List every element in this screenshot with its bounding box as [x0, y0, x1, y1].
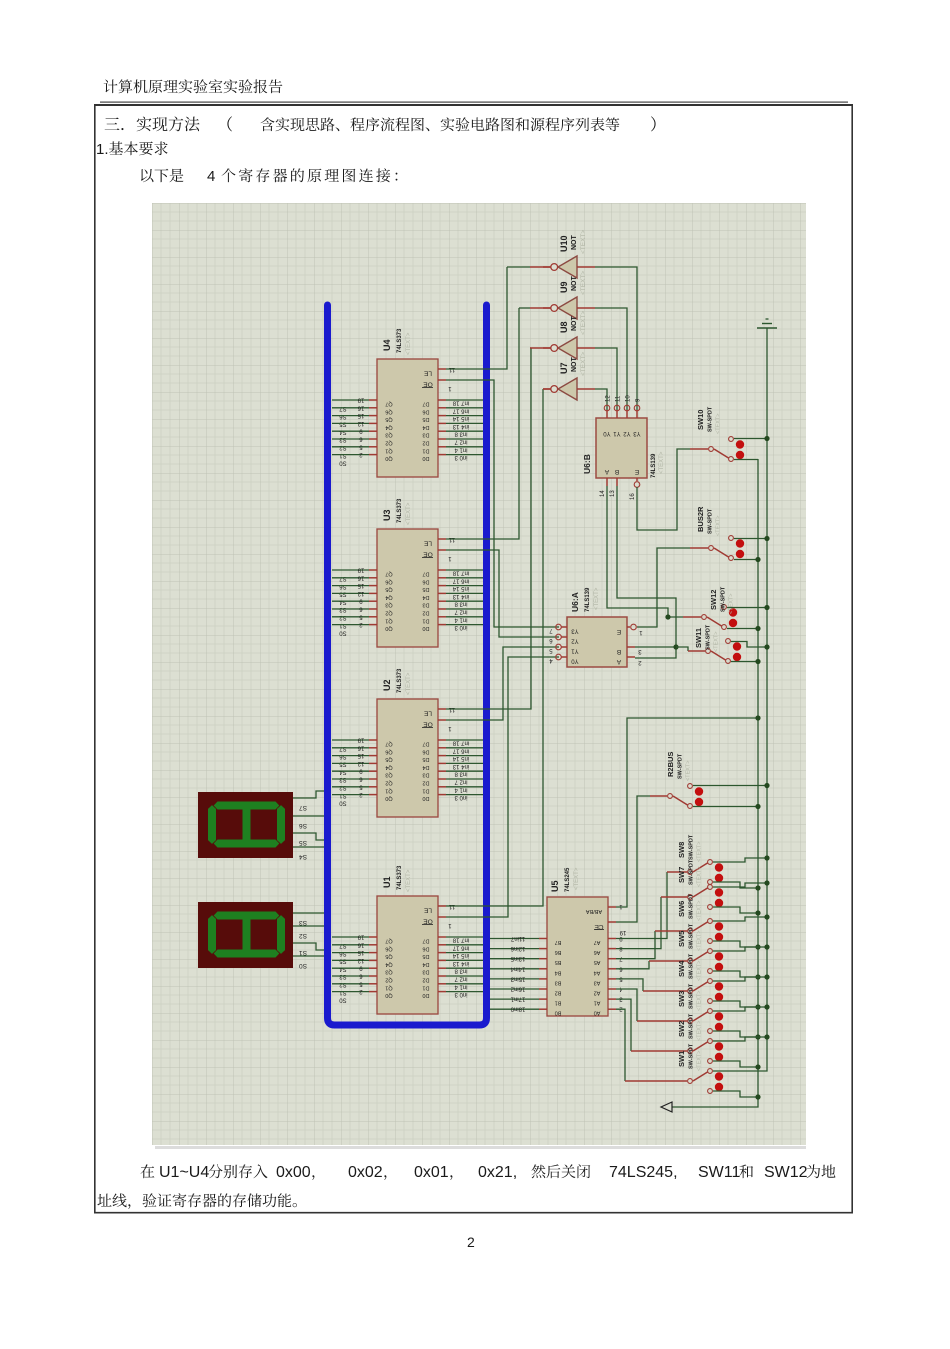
svg-text:0x00: 0x00 [276, 1164, 311, 1181]
wire SW6 top throw to rail A [713, 917, 767, 921]
svg-text:NOT: NOT [571, 316, 578, 332]
svg-text:D4: D4 [422, 961, 429, 967]
svg-text:U3: U3 [382, 509, 392, 521]
svg-text:Q5: Q5 [385, 416, 392, 422]
wire U10 output to U6:B pin 9 [595, 267, 637, 410]
label U8 [559, 311, 587, 335]
wire U6:B pin 14 to SW12 common [607, 486, 683, 617]
svg-text:in0 3: in0 3 [454, 794, 468, 800]
svg-text:12: 12 [357, 420, 364, 426]
svg-text:12: 12 [357, 590, 364, 596]
switch SW8 (SW-SPDT) [677, 834, 723, 884]
svg-text:74LS245: 74LS245 [565, 867, 571, 892]
svg-text:Q2: Q2 [385, 780, 392, 786]
svg-text:Q0: Q0 [385, 795, 392, 801]
svg-text:12: 12 [606, 395, 612, 402]
svg-text:in6 17: in6 17 [452, 577, 469, 583]
svg-text:D0: D0 [422, 625, 429, 631]
wire SW8 top throw to rail A [713, 858, 767, 862]
svg-text:S6: S6 [299, 822, 307, 829]
svg-text:Y1: Y1 [571, 648, 579, 654]
svg-text:Q4: Q4 [385, 424, 392, 430]
svg-text:LE: LE [423, 907, 432, 914]
svg-text:<TEXT>: <TEXT> [697, 901, 703, 921]
figure shadow [155, 1146, 806, 1149]
header title [104, 79, 283, 93]
svg-text:LE: LE [423, 540, 432, 547]
switch SW2 (SW-SPDT) [677, 1013, 723, 1063]
svg-text:D3: D3 [422, 602, 429, 608]
svg-text:SW4: SW4 [677, 960, 686, 977]
svg-text:Q0: Q0 [385, 455, 392, 461]
svg-text:E: E [616, 628, 621, 635]
svg-text:S7: S7 [299, 804, 307, 811]
inverter U9 (NOT gate) [543, 297, 595, 319]
header rule [94, 102, 853, 107]
wire U1 OE to U6:A pin Y0 [446, 657, 559, 917]
bottom paragraph line 2 [97, 1193, 296, 1209]
svg-text:<TEXT>: <TEXT> [574, 867, 580, 890]
wire BUS2R top throw to rail A [734, 538, 767, 540]
svg-text:SW6: SW6 [677, 901, 686, 917]
svg-text:in2 7: in2 7 [454, 779, 468, 785]
svg-text:<TEXT>: <TEXT> [729, 594, 735, 614]
switch SW4 (SW-SPDT) [677, 953, 723, 1003]
svg-text:U2: U2 [382, 679, 392, 691]
svg-text:Q0: Q0 [385, 625, 392, 631]
svg-text:15: 15 [357, 412, 364, 418]
svg-text:D1: D1 [422, 787, 429, 793]
7-segment display 1 [198, 792, 293, 858]
svg-text:<TEXT>: <TEXT> [697, 991, 703, 1011]
svg-text:D2: D2 [422, 440, 429, 446]
svg-text:in6 17: in6 17 [452, 747, 469, 753]
svg-text:D2: D2 [422, 610, 429, 616]
section heading [105, 116, 656, 131]
svg-text:19: 19 [357, 934, 364, 940]
svg-text:in6 17: in6 17 [452, 944, 469, 950]
svg-text:SW-SPDT: SW-SPDT [708, 508, 714, 534]
svg-text:Y0: Y0 [571, 658, 579, 664]
svg-text:S0: S0 [339, 997, 347, 1003]
svg-text:17in1: 17in1 [510, 996, 525, 1002]
svg-text:12: 12 [357, 957, 364, 963]
svg-text:S0: S0 [339, 800, 347, 806]
wire SW11 bottom throw to rail B [731, 661, 758, 663]
svg-text:14: 14 [600, 490, 606, 497]
svg-text:16: 16 [630, 493, 636, 500]
svg-text:SW5: SW5 [677, 931, 686, 947]
svg-text:A3: A3 [594, 979, 601, 985]
wire U5 pin A7 to SW8 common [616, 872, 667, 939]
svg-text:1.: 1. [96, 141, 109, 158]
switch SW1 (SW-SPDT) [677, 1043, 723, 1093]
wire U5 pin A5 to SW6 common [616, 931, 655, 959]
svg-text:Q1: Q1 [385, 984, 392, 990]
svg-text:B7: B7 [555, 939, 562, 945]
svg-text:<TEXT>: <TEXT> [697, 961, 703, 981]
svg-text:SW12: SW12 [764, 1164, 808, 1181]
svg-text:SW-SPDT: SW-SPDT [689, 953, 695, 979]
svg-text:in4 13: in4 13 [452, 763, 469, 769]
switch SW11 (SW-SPDT) [694, 624, 741, 663]
svg-text:A: A [616, 658, 621, 665]
svg-text:A4: A4 [594, 969, 601, 975]
svg-text:Q1: Q1 [385, 447, 392, 453]
intro line [141, 168, 397, 185]
wire U5 pin A2 to SW3 common [616, 989, 637, 1021]
svg-text:19: 19 [357, 567, 364, 573]
svg-text:16in2: 16in2 [510, 986, 525, 992]
svg-text:74LS139: 74LS139 [651, 453, 657, 478]
wire U4 OE to U6:A pin Y3 [446, 380, 559, 627]
svg-text:SW3: SW3 [677, 991, 686, 1007]
svg-text:15in3: 15in3 [510, 975, 525, 981]
svg-text:D0: D0 [422, 795, 429, 801]
svg-text:B2: B2 [555, 990, 562, 996]
svg-text:74LS139: 74LS139 [585, 587, 591, 612]
svg-text:Y2: Y2 [623, 430, 631, 436]
svg-text:<TEXT>: <TEXT> [697, 842, 703, 862]
svg-text:16: 16 [357, 941, 364, 947]
svg-text:in6 17: in6 17 [452, 407, 469, 413]
svg-text:D5: D5 [422, 416, 429, 422]
svg-text:<TEXT>: <TEXT> [406, 332, 412, 355]
svg-text:<TEXT>: <TEXT> [686, 761, 692, 781]
wire U5 pin A3 to SW4 common [616, 979, 643, 991]
wire U5 pin A0 to SW1 common [616, 1009, 625, 1081]
power rail A (x=767) [713, 328, 767, 1071]
svg-text:D1: D1 [422, 984, 429, 990]
switch SW12 (SW-SPDT) [702, 586, 738, 629]
wire U6:A pin B join [635, 646, 676, 648]
svg-text:D5: D5 [422, 756, 429, 762]
svg-text:in2 7: in2 7 [454, 976, 468, 982]
register U3 (74LS373) [332, 498, 483, 647]
svg-text:S2: S2 [299, 932, 307, 939]
svg-text:in1 4: in1 4 [454, 446, 468, 452]
svg-text:SW11: SW11 [694, 628, 703, 648]
svg-text:in1 4: in1 4 [454, 616, 468, 622]
svg-text:<TEXT>: <TEXT> [697, 1021, 703, 1041]
svg-text:Y3: Y3 [633, 430, 641, 436]
svg-text:74LS373: 74LS373 [397, 865, 403, 890]
svg-text:in4 13: in4 13 [452, 960, 469, 966]
svg-text:S5: S5 [299, 839, 307, 846]
svg-text:U10: U10 [559, 235, 569, 252]
svg-text:A: A [604, 468, 609, 475]
svg-text:13: 13 [610, 490, 616, 497]
wire SW4 bottom throw to rail B [713, 1001, 758, 1007]
svg-text:B1: B1 [555, 1000, 562, 1006]
svg-text:Q2: Q2 [385, 610, 392, 616]
svg-text:SW-SPDT: SW-SPDT [689, 1013, 695, 1039]
svg-text:Q3: Q3 [385, 602, 392, 608]
svg-text:in2 7: in2 7 [454, 439, 468, 445]
svg-text:D5: D5 [422, 953, 429, 959]
svg-text:<TEXT>: <TEXT> [406, 869, 412, 892]
svg-text:in7 18: in7 18 [452, 937, 469, 943]
svg-text:16: 16 [357, 744, 364, 750]
svg-text:in2 7: in2 7 [454, 609, 468, 615]
svg-text:B: B [615, 468, 619, 475]
switch BUS2R (SW-SPDT) [696, 506, 744, 560]
svg-text:D7: D7 [422, 938, 429, 944]
svg-text:in1 4: in1 4 [454, 983, 468, 989]
register U1 (74LS373) [332, 865, 483, 1014]
svg-text:19: 19 [357, 737, 364, 743]
svg-text:SW12: SW12 [709, 590, 718, 610]
content box border [95, 106, 852, 1213]
svg-text:NOT: NOT [571, 276, 578, 292]
wire BUS2R common to U6:A pin E [637, 548, 690, 627]
wire SW12 bottom throw to rail B [727, 628, 758, 630]
svg-text:16: 16 [357, 574, 364, 580]
wire SW11 top throw to rail A [731, 642, 767, 648]
svg-text:AB/BA: AB/BA [586, 908, 603, 914]
svg-text:D0: D0 [422, 455, 429, 461]
svg-text:Q2: Q2 [385, 977, 392, 983]
svg-text:SW1: SW1 [677, 1051, 686, 1067]
svg-text:D3: D3 [422, 772, 429, 778]
transceiver U5 (74LS245) [490, 867, 626, 1016]
svg-text:CE: CE [594, 923, 604, 930]
wire U6:B pin E to SW10 common [637, 449, 690, 530]
svg-text:B4: B4 [555, 969, 562, 975]
svg-text:D1: D1 [422, 447, 429, 453]
svg-text:<TEXT>: <TEXT> [406, 502, 412, 525]
svg-text:4: 4 [207, 168, 215, 185]
wire U1 LE to U7 input [446, 389, 543, 906]
svg-text:D1: D1 [422, 617, 429, 623]
svg-text:LE: LE [423, 370, 432, 377]
svg-text:in0 3: in0 3 [454, 454, 468, 460]
svg-text:D6: D6 [422, 408, 429, 414]
wire U3 LE to U9 input [446, 308, 519, 539]
svg-text:12in6: 12in6 [510, 945, 525, 951]
svg-text:SW-SPDT: SW-SPDT [689, 893, 695, 919]
switch SW3 (SW-SPDT) [677, 983, 723, 1033]
svg-text:<TEXT>: <TEXT> [406, 672, 412, 695]
wire SW5 bottom throw to rail B [713, 971, 758, 977]
svg-text:15: 15 [357, 949, 364, 955]
svg-text:in5 14: in5 14 [452, 755, 469, 761]
svg-text:Y1: Y1 [613, 430, 621, 436]
svg-text:Q5: Q5 [385, 953, 392, 959]
svg-text:in3 8: in3 8 [454, 771, 468, 777]
svg-text:D3: D3 [422, 432, 429, 438]
svg-text:SW-SPDT: SW-SPDT [721, 586, 727, 612]
svg-text:19: 19 [619, 929, 626, 935]
svg-text:A1: A1 [594, 1000, 601, 1006]
svg-text:A2: A2 [594, 990, 601, 996]
svg-text:Q7: Q7 [385, 741, 392, 747]
svg-text:S0: S0 [339, 630, 347, 636]
svg-text:12: 12 [357, 760, 364, 766]
svg-text:in7 18: in7 18 [452, 740, 469, 746]
svg-text:D6: D6 [422, 578, 429, 584]
svg-text:15: 15 [357, 582, 364, 588]
wire U2 OE to U6:A pin Y1 [446, 647, 559, 720]
wire SW4 top throw to rail A [713, 977, 767, 981]
wire junction to SW11 common [676, 647, 688, 651]
svg-text:Q4: Q4 [385, 961, 392, 967]
wire U5 pin 1 (AB/BA) to rail B [616, 718, 758, 907]
svg-text:in7 18: in7 18 [452, 400, 469, 406]
svg-text:D6: D6 [422, 945, 429, 951]
svg-text:D3: D3 [422, 969, 429, 975]
svg-text:U9: U9 [559, 281, 569, 293]
wire SW7 top throw to rail A [713, 883, 767, 887]
svg-text:<TEXT>: <TEXT> [580, 352, 587, 376]
svg-text:D5: D5 [422, 586, 429, 592]
svg-text:D0: D0 [422, 992, 429, 998]
svg-text:D4: D4 [422, 764, 429, 770]
svg-text:U1: U1 [382, 876, 392, 888]
svg-text:D7: D7 [422, 741, 429, 747]
svg-text:Q2: Q2 [385, 440, 392, 446]
inverter U10 (NOT gate) [543, 256, 595, 278]
svg-text:SW8: SW8 [677, 842, 686, 858]
label U9 [559, 271, 587, 295]
svg-text:SW-SPDT: SW-SPDT [708, 406, 714, 432]
svg-text:74LS373: 74LS373 [397, 328, 403, 353]
svg-text:B6: B6 [555, 949, 562, 955]
svg-text:<TEXT>: <TEXT> [659, 451, 665, 474]
svg-text:D4: D4 [422, 594, 429, 600]
wire SW1 bottom throw to rail B [713, 1091, 758, 1097]
svg-text:19: 19 [357, 397, 364, 403]
svg-text:SW2: SW2 [677, 1021, 686, 1037]
svg-text:13in5: 13in5 [510, 955, 525, 961]
svg-text:B5: B5 [555, 959, 562, 965]
wire U2 LE to U8 input [446, 348, 531, 709]
svg-text:S0: S0 [339, 460, 347, 466]
svg-text:in5 14: in5 14 [452, 415, 469, 421]
svg-text:<TEXT>: <TEXT> [697, 1051, 703, 1071]
svg-text:U8: U8 [559, 321, 569, 333]
svg-text:OE: OE [423, 918, 433, 925]
svg-text:in4 13: in4 13 [452, 593, 469, 599]
svg-text:Q1: Q1 [385, 617, 392, 623]
svg-text:A7: A7 [594, 939, 601, 945]
wire U7 output to U6:B pin 12 [595, 389, 607, 410]
wire U5 pin 19 (CE) to R2BUS common [616, 796, 650, 922]
wire SW10 top throw to rail A [734, 438, 767, 440]
svg-text:SW-SPDT: SW-SPDT [678, 753, 684, 779]
svg-text:SW-SPDT: SW-SPDT [689, 834, 695, 860]
svg-text:Q0: Q0 [385, 992, 392, 998]
register U4 (74LS373) [332, 328, 483, 477]
svg-text:U6:A: U6:A [570, 592, 580, 612]
svg-text:B: B [617, 648, 621, 655]
svg-text:74LS373: 74LS373 [397, 668, 403, 693]
svg-text:in5 14: in5 14 [452, 952, 469, 958]
svg-text:in0 3: in0 3 [454, 624, 468, 630]
svg-text:<TEXT>: <TEXT> [697, 867, 703, 887]
svg-text:S0: S0 [299, 962, 307, 969]
wire SW10 bottom throw to rail B [734, 459, 758, 461]
decoder U6:A (74LS139) [549, 587, 643, 667]
wire SW3 top throw to rail A [713, 1007, 767, 1011]
svg-text:Q7: Q7 [385, 401, 392, 407]
svg-text:SW-SPDT: SW-SPDT [689, 983, 695, 1009]
switch SW5 (SW-SPDT) [677, 923, 723, 973]
svg-text:<TEXT>: <TEXT> [580, 271, 587, 295]
power rail B (x=758) [672, 459, 758, 1107]
svg-text:Q7: Q7 [385, 571, 392, 577]
svg-text:Q4: Q4 [385, 594, 392, 600]
switch SW7 (SW-SPDT) [677, 859, 723, 909]
svg-text:A0: A0 [594, 1010, 601, 1016]
bottom paragraph line 1 [141, 1164, 836, 1181]
svg-text:0x21,: 0x21, [478, 1164, 517, 1181]
svg-text:Q6: Q6 [385, 748, 392, 754]
svg-text:in3 8: in3 8 [454, 431, 468, 437]
wire SW8 bottom throw to rail B [713, 882, 758, 888]
svg-text:Q3: Q3 [385, 969, 392, 975]
svg-text:2: 2 [467, 1234, 475, 1250]
register U2 (74LS373) [332, 668, 483, 817]
svg-text:in1 4: in1 4 [454, 786, 468, 792]
wire U5 pin A1 to SW2 common [616, 999, 631, 1051]
svg-text:<TEXT>: <TEXT> [697, 931, 703, 951]
svg-text:in3 8: in3 8 [454, 968, 468, 974]
svg-text:SW11: SW11 [698, 1164, 740, 1181]
svg-text:Q6: Q6 [385, 945, 392, 951]
display 2 segment wires [293, 913, 324, 969]
wire SW6 bottom throw to rail B [713, 941, 758, 947]
wire U6:B pin 13 down to U6:A side [617, 486, 676, 658]
svg-text:<TEXT>: <TEXT> [580, 311, 587, 335]
svg-text:D7: D7 [422, 401, 429, 407]
svg-text:U6:B: U6:B [582, 454, 592, 474]
wire R2BUS top throw to rail A [693, 785, 767, 787]
svg-text:U4: U4 [382, 339, 392, 351]
junction on SW12 common wire [665, 614, 670, 619]
svg-text:16: 16 [357, 404, 364, 410]
wire SW12 top throw to rail A [727, 607, 767, 609]
svg-text:D4: D4 [422, 424, 429, 430]
svg-text:Q3: Q3 [385, 432, 392, 438]
svg-text:Q7: Q7 [385, 938, 392, 944]
svg-text:D2: D2 [422, 780, 429, 786]
subsection 1 [96, 141, 168, 158]
svg-text:18in0: 18in0 [510, 1006, 525, 1012]
wire U8 output to U6:B pin 11 [595, 348, 617, 410]
svg-text:D2: D2 [422, 977, 429, 983]
svg-text:R2BUS: R2BUS [666, 752, 675, 777]
svg-text:Y3: Y3 [571, 628, 579, 634]
svg-text:14in4: 14in4 [510, 965, 525, 971]
svg-text:SW10: SW10 [696, 410, 705, 430]
svg-text:74LS373: 74LS373 [397, 498, 403, 523]
inverter U8 (NOT gate) [543, 337, 595, 359]
wire U5 pin A4 to SW5 common [616, 961, 649, 969]
svg-text:74LS245,: 74LS245, [609, 1164, 678, 1181]
inverter U7 (NOT gate) [543, 378, 595, 400]
label U7 [559, 352, 587, 376]
svg-text:U5: U5 [550, 880, 560, 892]
svg-text:LE: LE [423, 710, 432, 717]
svg-text:in5 14: in5 14 [452, 585, 469, 591]
svg-text:SW-SPDT: SW-SPDT [689, 859, 695, 885]
svg-text:Q5: Q5 [385, 586, 392, 592]
switch SW6 (SW-SPDT) [677, 893, 723, 943]
svg-text:S3: S3 [299, 919, 307, 926]
wire U5 pin A6 to SW7 common [616, 897, 661, 949]
svg-text:SW7: SW7 [677, 867, 686, 883]
